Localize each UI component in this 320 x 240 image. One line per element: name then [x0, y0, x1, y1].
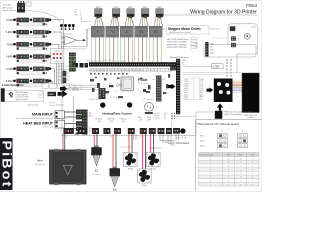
svg-text:Wiring Diagram for 3D Printer: Wiring Diagram for 3D Printer — [190, 10, 257, 16]
svg-text:Extend IO interface: Extend IO interface — [170, 56, 190, 59]
svg-text:Fan3: Fan3 — [128, 168, 134, 170]
svg-text:D42: D42 — [184, 79, 187, 81]
svg-text:GS white: GS white — [3, 4, 13, 7]
svg-text:7: 7 — [228, 177, 229, 179]
svg-text:Logic Tab: Logic Tab — [63, 34, 72, 36]
svg-text:D50: D50 — [184, 88, 187, 90]
svg-text:Bed: Bed — [37, 159, 43, 163]
svg-text:6: 6 — [210, 181, 211, 183]
svg-text:H2: H2 — [110, 137, 112, 139]
svg-text:4: 4 — [240, 177, 241, 179]
svg-text:UART: UART — [48, 93, 55, 96]
svg-text:12V or 24V: 12V or 24V — [43, 126, 54, 128]
svg-text:RRW DOWN / DRV8825: RRW DOWN / DRV8825 — [167, 42, 187, 44]
svg-text:D46: D46 — [184, 83, 187, 85]
svg-text:E2: E2 — [113, 187, 117, 191]
svg-text:D45: D45 — [200, 81, 203, 83]
svg-text:T0 T1 T2 T3: T0 T1 T2 T3 — [176, 137, 186, 139]
svg-text:D51: D51 — [200, 88, 203, 90]
svg-text:Plus: Plus — [89, 116, 93, 118]
svg-text:X-MIN: X-MIN — [6, 19, 13, 22]
svg-text:6: 6 — [240, 184, 241, 186]
svg-text:D49: D49 — [200, 86, 203, 88]
svg-text:Fan1: Fan1 — [142, 185, 148, 187]
svg-text:D37 D36 D35 D34 D33 D32 D31 D3: D37 D36 D35 D34 D33 D32 D31 D30 D29 D28 … — [86, 70, 143, 72]
svg-text:PiBot: PiBot — [138, 78, 148, 82]
svg-text:Extruder 1: Extruder 1 — [92, 173, 102, 176]
svg-text:Y-MIN: Y-MIN — [6, 43, 13, 46]
svg-text:RRW DOWN / DRV8834: RRW DOWN / DRV8834 — [167, 44, 187, 46]
svg-text:7: 7 — [210, 184, 211, 186]
svg-text:6: 6 — [252, 177, 253, 179]
svg-text:D9: D9 — [164, 115, 166, 117]
svg-text:5V G S: 5V G S — [54, 62, 60, 64]
svg-text:PiBot: PiBot — [246, 3, 258, 8]
svg-text:Probe: Probe — [55, 50, 60, 53]
svg-text:MAIN INPUT: MAIN INPUT — [32, 113, 54, 117]
svg-text:Ext3: Ext3 — [251, 154, 254, 157]
svg-text:2: 2 — [240, 170, 241, 172]
svg-text:2: 2 — [252, 162, 253, 164]
svg-text:9: 9 — [228, 170, 229, 172]
svg-text:8: 8 — [252, 184, 253, 186]
svg-text:Bed 12V: Bed 12V — [154, 113, 161, 115]
svg-text:3: 3 — [210, 170, 211, 172]
svg-text:SDA SCL A8 A9: SDA SCL A8 A9 — [89, 98, 101, 101]
svg-text:H1: H1 — [93, 137, 95, 139]
svg-text:U3: U3 — [109, 83, 111, 85]
svg-text:HEAT BED INPUT: HEAT BED INPUT — [23, 121, 54, 125]
svg-text:5: 5 — [252, 173, 253, 175]
svg-text:R5: R5 — [140, 92, 142, 94]
svg-text:C8: C8 — [114, 91, 116, 93]
svg-text:E1: E1 — [95, 169, 99, 173]
svg-text:D53: D53 — [200, 90, 203, 92]
svg-text:1: 1 — [240, 166, 241, 168]
svg-text:Thermistors: Thermistors — [176, 141, 190, 145]
svg-text:X-MAX: X-MAX — [5, 31, 13, 34]
svg-text:(Heat Bed): (Heat Bed) — [35, 163, 46, 166]
svg-text:A/P along: A/P along — [3, 6, 13, 9]
svg-text:RRW DOWN / TMC2100: RRW DOWN / TMC2100 — [167, 47, 187, 49]
svg-text:4: 4 — [252, 170, 253, 172]
svg-text:12: 12 — [240, 158, 242, 160]
svg-text:2: 2 — [210, 166, 211, 168]
svg-text:Ext2: Ext2 — [239, 154, 242, 157]
svg-text:RST: RST — [158, 89, 161, 91]
svg-text:Ext1: Ext1 — [227, 154, 230, 157]
svg-text:Z-MIN: Z-MIN — [6, 68, 13, 71]
svg-text:D52: D52 — [184, 90, 187, 92]
svg-text:C12: C12 — [90, 77, 93, 79]
svg-text:F2: F2 — [150, 137, 152, 139]
svg-text:Z: Z — [126, 30, 128, 34]
svg-text:7: 7 — [252, 181, 253, 183]
svg-text:Fan2: Fan2 — [151, 168, 157, 170]
svg-text:5: 5 — [240, 181, 241, 183]
svg-text:Y-MAX: Y-MAX — [6, 56, 14, 59]
svg-text:Limit Switches: Limit Switches — [2, 83, 24, 87]
svg-text:Thermistors: Thermistors — [150, 147, 162, 150]
svg-text:on board: on board — [56, 103, 63, 106]
svg-text:E2: E2 — [154, 30, 158, 34]
svg-text:6: 6 — [228, 181, 229, 183]
svg-text:D7: D7 — [164, 118, 166, 120]
svg-text:3: 3 — [240, 173, 241, 175]
svg-text:8: 8 — [228, 173, 229, 175]
svg-text:SD card slot: SD card slot — [28, 103, 39, 106]
svg-text:5: 5 — [228, 184, 229, 186]
svg-text:Heating/Fans Control: Heating/Fans Control — [102, 111, 131, 115]
svg-text:ICSP: ICSP — [213, 65, 220, 69]
svg-text:Power supply: Power supply — [120, 147, 131, 149]
svg-text:F1: F1 — [141, 137, 143, 139]
svg-text:PiBot: PiBot — [0, 141, 15, 189]
svg-text:0: 0 — [240, 162, 241, 164]
svg-text:D44: D44 — [184, 81, 187, 83]
svg-text:11: 11 — [228, 158, 230, 160]
svg-text:(A4988 driver not included): (A4988 driver not included) — [169, 31, 191, 34]
svg-text:for 3D printer: for 3D printer — [138, 82, 149, 85]
svg-text:D43: D43 — [200, 79, 203, 81]
svg-text:D13 GND VCC: D13 GND VCC — [143, 99, 155, 101]
svg-text:Stepper Motor Driver: Stepper Motor Driver — [168, 27, 202, 31]
svg-text:1: 1 — [252, 158, 253, 160]
svg-text:(SD+LCD connection): (SD+LCD connection) — [225, 113, 243, 116]
svg-text:Q2: Q2 — [144, 87, 146, 89]
svg-text:D11 D6 D5 D4: D11 D6 D5 D4 — [42, 82, 54, 84]
svg-text:X1 16MHz: X1 16MHz — [110, 97, 118, 99]
svg-text:HEF DOWN / A4988 x5pcs: HEF DOWN / A4988 x5pcs — [167, 38, 189, 41]
svg-text:F3: F3 — [128, 137, 130, 139]
svg-text:C22 R9: C22 R9 — [152, 79, 158, 81]
svg-text:Thermistors I/O channel select: Thermistors I/O channel select — [197, 122, 239, 126]
svg-text:D47: D47 — [200, 83, 203, 85]
svg-text:E1: E1 — [139, 30, 143, 34]
svg-text:3: 3 — [252, 166, 253, 168]
svg-text:D48: D48 — [184, 86, 187, 88]
svg-text:12V recommended (or 24V most c: 12V recommended (or 24V most chips ok) — [16, 117, 54, 120]
svg-text:U2: U2 — [101, 89, 103, 91]
svg-text:0: 0 — [210, 158, 211, 160]
svg-text:optional wireless: optional wireless — [16, 98, 29, 101]
svg-text:Bed: Bed — [64, 137, 67, 139]
svg-text:Display: Display — [248, 117, 254, 119]
svg-text:Firmware Settings: Firmware Settings — [200, 154, 214, 157]
svg-text:VD 5a: VD 5a — [251, 27, 256, 29]
svg-text:10: 10 — [228, 166, 230, 168]
svg-text:5: 5 — [210, 177, 211, 179]
svg-text:1: 1 — [210, 162, 211, 164]
svg-text:switch sensor: switch sensor — [3, 9, 17, 12]
svg-text:R11 C4: R11 C4 — [90, 85, 96, 87]
svg-text:EN ST DIR EN ST DIR EN ST DIR: EN ST DIR EN ST DIR EN ST DIR EN ST DIR … — [86, 61, 126, 63]
svg-text:13: 13 — [228, 162, 230, 164]
svg-text:4: 4 — [210, 173, 211, 175]
svg-text:J1: J1 — [238, 39, 240, 41]
